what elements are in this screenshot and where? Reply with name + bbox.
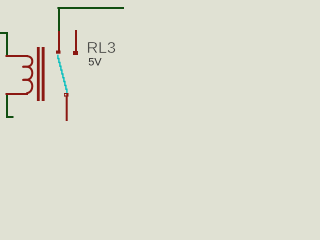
relay switch contact pin 1 (connected) xyxy=(58,31,60,51)
common pin end square xyxy=(64,93,69,97)
relay coil RL3 winding (3 humps) xyxy=(23,56,32,93)
svg-text:RL3: RL3 xyxy=(87,40,116,57)
svg-text:5V: 5V xyxy=(88,57,102,69)
relay coil RL3 top pin xyxy=(6,55,29,57)
relay coil RL3 bottom pin xyxy=(6,93,29,95)
wire: common pin vertical to bottom edge xyxy=(66,97,68,122)
wire: top-left horizontal entering from left edge xyxy=(0,32,8,34)
pin 1 end square xyxy=(56,51,61,54)
relay core bar 2 xyxy=(42,47,45,101)
switch armature (cyan) xyxy=(58,55,67,93)
light notch inside common square xyxy=(65,94,67,95)
wire: top-right horizontal to right edge xyxy=(57,7,124,9)
wire: vertical drop to switch contact pin xyxy=(58,7,60,31)
background xyxy=(0,0,124,121)
wire: bottom-left horizontal stub xyxy=(6,116,14,118)
relay core bar 1 xyxy=(37,47,40,101)
wire: left vertical from coil bottom pin down xyxy=(6,95,8,118)
pin 2 end square xyxy=(73,51,78,55)
relay switch contact pin 2 (n.o., dangling) xyxy=(75,30,77,51)
wire: left vertical down to coil top pin xyxy=(6,32,8,56)
